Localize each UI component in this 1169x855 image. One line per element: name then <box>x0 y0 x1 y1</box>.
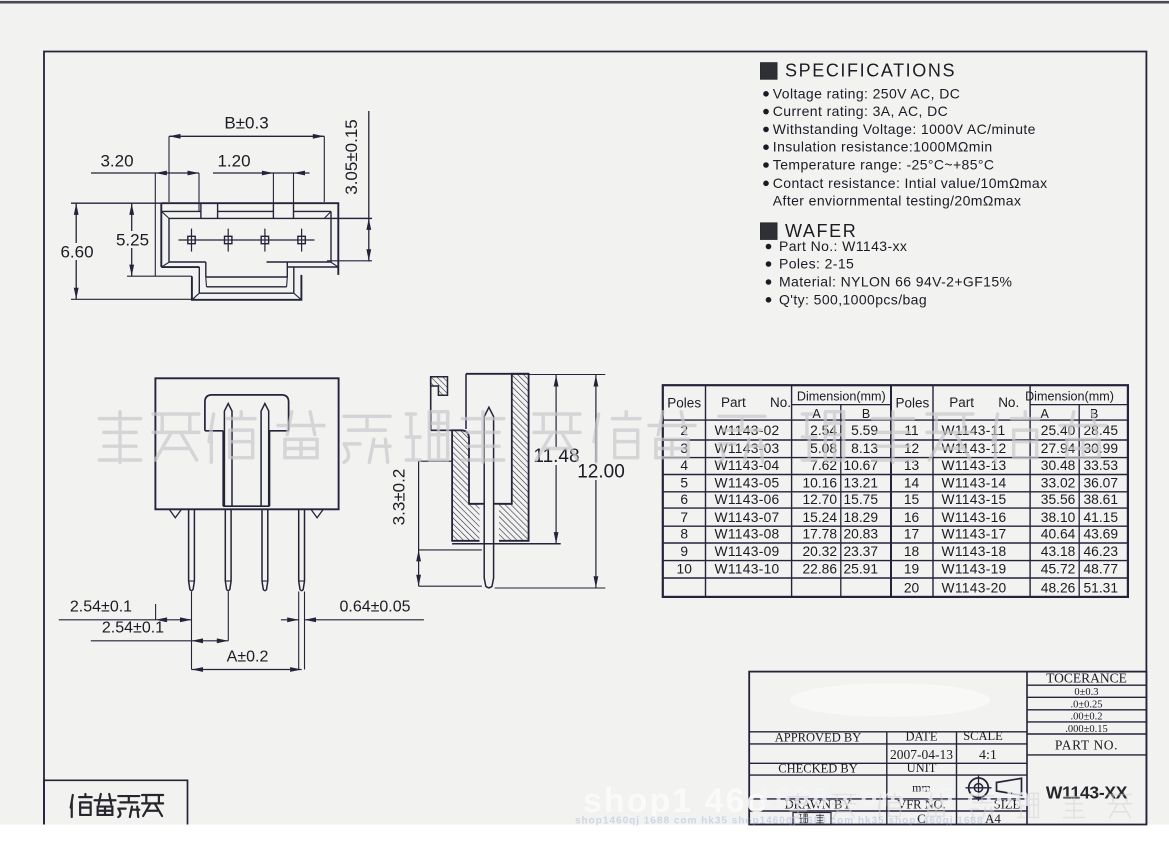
svg-text:17.78: 17.78 <box>802 527 837 542</box>
section view: contact pin <box>484 407 493 544</box>
svg-text:A: A <box>812 407 821 421</box>
svg-text:UNIT: UNIT <box>907 761 937 775</box>
svg-text:12: 12 <box>904 441 919 456</box>
svg-text:20.83: 20.83 <box>843 527 878 542</box>
svg-text:51.31: 51.31 <box>1083 580 1118 595</box>
svg-text:23.37: 23.37 <box>843 544 878 559</box>
watermark: white blob in title block cell <box>790 683 990 717</box>
svg-text:33.02: 33.02 <box>1041 475 1076 490</box>
top view pin 2 <box>225 236 232 243</box>
svg-text:Poles: 2-15: Poles: 2-15 <box>779 256 854 272</box>
front view: body <box>155 378 338 509</box>
svg-text:Poles: Poles <box>896 396 930 411</box>
watermark: faint gray glyph row bottom right <box>788 793 1132 818</box>
svg-text:Insulation resistance:1000MΩmi: Insulation resistance:1000MΩmin <box>773 139 993 155</box>
spec bullet: Temperature range <box>763 162 769 168</box>
projection symbol: circle <box>969 778 989 798</box>
spec bullet: Withstanding Voltage <box>763 127 769 133</box>
front view through pin 1 <box>189 509 195 590</box>
svg-text:4: 4 <box>680 458 688 473</box>
wafer bullet: Poles <box>766 261 772 267</box>
svg-text:35.56: 35.56 <box>1041 492 1076 507</box>
svg-text:10: 10 <box>677 562 693 577</box>
svg-text:12.70: 12.70 <box>802 492 837 507</box>
section view: pin hole white channel <box>480 505 500 544</box>
svg-text:Dimension(mm): Dimension(mm) <box>797 390 886 404</box>
svg-text:5.59: 5.59 <box>851 423 878 438</box>
drawn-by name stamp (CJK) <box>793 813 831 825</box>
dimension 5.25 <box>131 203 133 276</box>
svg-text:W1143-06: W1143-06 <box>715 492 780 507</box>
svg-text:W1143-17: W1143-17 <box>942 527 1007 542</box>
front view: top mating slot <box>205 395 289 431</box>
svg-text:0.64±0.05: 0.64±0.05 <box>339 599 410 616</box>
svg-text:20.32: 20.32 <box>802 544 837 559</box>
top view: bottom mounting tab <box>192 275 302 300</box>
svg-text:.00±0.2: .00±0.2 <box>1070 712 1102 723</box>
svg-text:B±0.3: B±0.3 <box>224 114 268 133</box>
front view through pin 3 <box>262 509 268 590</box>
svg-text:2.54±0.1: 2.54±0.1 <box>102 620 164 637</box>
svg-text:Voltage rating: 250V AC, DC: Voltage rating: 250V AC, DC <box>773 85 960 101</box>
svg-text:30.48: 30.48 <box>1041 458 1076 473</box>
svg-text:shop1460qj 1688 com hk35 shop: shop1460qj 1688 com hk35 shop1460qj 1688… <box>575 816 984 827</box>
svg-text:Withstanding Voltage: 1000V AC: Withstanding Voltage: 1000V AC/minute <box>773 121 1036 137</box>
section view: base bottom second line <box>452 543 561 545</box>
front view through pin 4 <box>299 509 305 590</box>
svg-text:W1143-08: W1143-08 <box>715 527 780 542</box>
svg-text:TOCERANCE: TOCERANCE <box>1046 671 1127 686</box>
spec bullet: Insulation resistance <box>763 144 769 150</box>
spec bullet: Contact resistance <box>763 181 769 187</box>
svg-text:CHECKED BY: CHECKED BY <box>778 762 858 776</box>
svg-text:After enviornmental testing/20: After enviornmental testing/20mΩmax <box>773 193 1022 209</box>
front view through pin 2 <box>225 509 231 590</box>
svg-text:No.: No. <box>770 395 791 410</box>
svg-text:shop1 46o: shop1 46o <box>583 782 769 820</box>
svg-text:5: 5 <box>680 475 688 490</box>
svg-text:0±0.3: 0±0.3 <box>1074 687 1098 698</box>
svg-text:A4: A4 <box>985 811 1001 826</box>
svg-text:6.60: 6.60 <box>60 243 93 262</box>
svg-text:W1143-05: W1143-05 <box>715 475 780 490</box>
top view: polarizing slot edges in top wall <box>200 203 202 218</box>
svg-text:DATE: DATE <box>906 730 938 744</box>
svg-text:9: 9 <box>680 544 688 559</box>
svg-text:8.13: 8.13 <box>851 441 878 456</box>
svg-text:38.10: 38.10 <box>1041 510 1076 525</box>
front view: standoff notches <box>169 509 323 518</box>
svg-text:W1143-04: W1143-04 <box>715 458 780 473</box>
svg-text:2007-04-13: 2007-04-13 <box>890 747 953 762</box>
svg-text:PART NO.: PART NO. <box>1055 738 1118 753</box>
svg-text:W1143-18: W1143-18 <box>942 544 1007 559</box>
svg-text:Poles: Poles <box>667 396 701 411</box>
svg-text:43.69: 43.69 <box>1083 527 1118 542</box>
svg-text:Current rating: 3A, AC, DC: Current rating: 3A, AC, DC <box>773 103 948 119</box>
svg-text:W1143-07: W1143-07 <box>715 510 780 525</box>
svg-text:11: 11 <box>904 423 918 438</box>
svg-text:SPECIFICATIONS: SPECIFICATIONS <box>785 61 956 81</box>
svg-text:Material: NYLON 66 94V-2+GF15%: Material: NYLON 66 94V-2+GF15% <box>779 274 1012 290</box>
svg-text:4:1: 4:1 <box>979 748 997 763</box>
front view contact pin 3 <box>261 404 269 507</box>
svg-text:13.21: 13.21 <box>843 475 878 490</box>
svg-text:8: 8 <box>680 527 688 542</box>
spec bullet: Voltage rating <box>763 91 769 97</box>
svg-text:41.15: 41.15 <box>1083 510 1118 525</box>
reference-only box (CJK) <box>44 780 188 824</box>
section view: rear profile lines <box>430 377 432 431</box>
svg-text:1.20: 1.20 <box>217 152 250 171</box>
svg-text:12.00: 12.00 <box>577 462 625 483</box>
spec bullet: Current rating <box>763 109 769 115</box>
svg-text:48.26: 48.26 <box>1041 580 1076 595</box>
svg-text:SCALE: SCALE <box>963 729 1003 743</box>
svg-text:33.53: 33.53 <box>1083 458 1118 473</box>
scan edge dark line top <box>0 1 1169 4</box>
svg-text:18: 18 <box>904 544 920 559</box>
svg-text:3.05±0.15: 3.05±0.15 <box>342 119 361 195</box>
svg-text:18.29: 18.29 <box>843 510 878 525</box>
svg-text:38.61: 38.61 <box>1083 492 1118 507</box>
svg-text:.0±0.25: .0±0.25 <box>1070 700 1102 711</box>
wafer bullet: Part No. <box>766 244 772 250</box>
svg-text:W1143-16: W1143-16 <box>942 510 1007 525</box>
svg-text:W1143-XX: W1143-XX <box>1046 783 1128 803</box>
svg-text:.000±0.15: .000±0.15 <box>1065 724 1108 735</box>
svg-text:A±0.2: A±0.2 <box>227 649 269 666</box>
svg-text:6: 6 <box>680 492 688 507</box>
svg-text:25.91: 25.91 <box>843 562 878 577</box>
wafer bullet: Q'ty <box>766 297 772 303</box>
svg-text:19: 19 <box>904 562 920 577</box>
svg-text:W1143-14: W1143-14 <box>942 475 1007 490</box>
svg-text:20: 20 <box>904 580 920 595</box>
svg-text:W1143-19: W1143-19 <box>942 562 1007 577</box>
title block <box>749 672 1146 825</box>
svg-text:10.16: 10.16 <box>802 475 837 490</box>
svg-text:B: B <box>862 407 870 421</box>
svg-text:Dimension(mm): Dimension(mm) <box>1025 390 1114 404</box>
svg-text:Contact resistance: Intial val: Contact resistance: Intial value/10mΩmax <box>773 175 1048 191</box>
watermark: large gray company name row <box>99 412 1106 463</box>
svg-text:15.24: 15.24 <box>802 510 837 525</box>
top view pin 1 <box>188 236 195 243</box>
svg-text:43.18: 43.18 <box>1041 544 1076 559</box>
dimension 12.00 <box>595 375 597 589</box>
svg-text:46.23: 46.23 <box>1083 544 1118 559</box>
svg-text:22.86: 22.86 <box>802 562 837 577</box>
top view: pin squares with centerlines <box>179 239 315 241</box>
svg-text:APPROVED BY: APPROVED BY <box>775 731 861 745</box>
SPECIFICATIONS title <box>761 63 778 79</box>
top view: connector body outline <box>161 203 338 275</box>
svg-text:14: 14 <box>904 475 920 490</box>
svg-text:W1143-10: W1143-10 <box>715 562 780 577</box>
poles / part no. / dimension table <box>663 385 1128 597</box>
section view: cavity floor line <box>469 503 512 505</box>
top view pin 4 <box>298 236 305 243</box>
svg-text:36.07: 36.07 <box>1083 475 1118 490</box>
svg-text:Part No.: W1143-xx: Part No.: W1143-xx <box>779 238 907 254</box>
svg-text:Part: Part <box>949 395 974 410</box>
top view pin 3 <box>261 236 268 243</box>
svg-text:A: A <box>1041 407 1050 421</box>
svg-text:40.64: 40.64 <box>1041 527 1076 542</box>
svg-text:W1143-20: W1143-20 <box>942 580 1007 595</box>
svg-text:15: 15 <box>904 492 920 507</box>
dimension 6.60 <box>75 203 77 299</box>
section view: hatched body (left column + base + right wall) <box>452 374 528 541</box>
svg-text:3.3±0.2: 3.3±0.2 <box>390 469 409 526</box>
section view: rear latch block (hatched) <box>431 377 448 395</box>
svg-text:No.: No. <box>998 395 1019 410</box>
WAFER title <box>761 223 778 240</box>
svg-text:Part: Part <box>721 395 746 410</box>
svg-text:16: 16 <box>904 510 920 525</box>
svg-text:5.25: 5.25 <box>116 231 149 250</box>
svg-text:Q'ty: 500,1000pcs/bag: Q'ty: 500,1000pcs/bag <box>779 291 927 307</box>
svg-text:7: 7 <box>680 510 688 525</box>
svg-text:15.75: 15.75 <box>843 492 878 507</box>
dimension 11.48 <box>529 374 606 376</box>
svg-text:48.77: 48.77 <box>1083 562 1118 577</box>
wafer bullet: Material <box>766 279 772 285</box>
front view contact pin 2 <box>224 404 232 507</box>
svg-text:45.72: 45.72 <box>1041 562 1076 577</box>
svg-text:3.20: 3.20 <box>100 152 133 171</box>
top view: inner cavity walls <box>162 210 201 212</box>
svg-text:W1143-15: W1143-15 <box>942 492 1007 507</box>
projection symbol: cone trapezoid <box>997 778 1022 795</box>
svg-text:17: 17 <box>904 527 919 542</box>
svg-text:W1143-09: W1143-09 <box>715 544 780 559</box>
svg-text:Temperature range: -25°C~+85°C: Temperature range: -25°C~+85°C <box>773 157 995 173</box>
svg-text:2.54±0.1: 2.54±0.1 <box>70 599 132 616</box>
